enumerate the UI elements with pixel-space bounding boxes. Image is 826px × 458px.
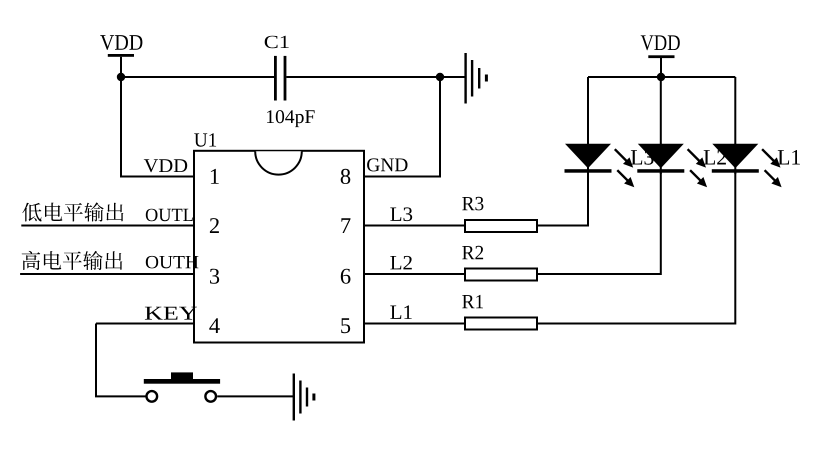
wire: pin 4 down to switch [96,324,146,397]
label L3 [631,150,654,165]
IC U1 notch [255,151,302,174]
wire: LED supply rail [588,76,735,78]
net label L2 (pin 6) [390,256,412,270]
ground (top, right of C1) [466,53,487,104]
junction dot on LED rail [657,73,665,81]
LED L1 emission arrows [762,149,782,187]
label R3 [462,197,483,211]
label R1 [462,295,483,308]
pin label KEY [145,307,197,320]
LED L3 emission arrows [615,149,635,187]
net label 低电平输出 [22,202,123,221]
pin 3 number [210,269,219,284]
wire: OUTH pin 3 [20,273,194,275]
wire: OUTL pin 2 [21,225,194,227]
resistor R1 [465,318,537,330]
resistor R3 [465,220,537,232]
wire: pin 5 to R1 [364,323,465,325]
wire: R3 to LED L3 [538,171,588,226]
pin 2 number [210,218,219,233]
LED L3 [565,144,612,174]
wire: VDD rail down to pin 1 [121,77,194,177]
LED L2 emission arrows [688,149,708,187]
wire: pin 7 to R3 [364,225,465,227]
wire: KEY pin 4 [96,323,194,325]
wire: pin 6 to R2 [364,273,465,275]
wire: R2 to LED L2 [538,171,661,274]
label U1 [194,133,216,146]
net label L3 (pin 7) [390,207,412,221]
LED L1 [712,144,759,174]
pin 4 number [209,318,220,333]
label L2 [704,150,726,165]
wire: switch to ground [217,395,294,397]
pin 7 number [341,218,350,233]
LED L1 anode wire [734,77,736,146]
label L1 [778,150,800,165]
capacitor C1 [274,56,286,101]
power symbol VDD (right) [641,35,680,78]
push button switch [144,372,220,401]
resistor R2 [465,269,537,281]
pin 5 number [341,318,350,333]
pin label OUTL [146,209,193,222]
wire: C1 to ground [286,76,465,78]
pin 1 number [211,169,219,184]
junction dot at VDD/pin1 branch [117,73,125,81]
junction dot at GND branch [436,73,444,81]
LED L2 anode wire [660,77,662,146]
wire: VDD to C1 [121,76,275,78]
pin 6 number [341,269,351,284]
net label L1 (pin 5) [390,305,411,319]
pin 8 number [341,169,351,184]
IC U1 body [194,151,364,343]
pin label OUTH [146,256,199,269]
pin label VDD [144,159,187,172]
wire: R1 to LED L1 [538,171,735,324]
LED L3 anode wire [587,77,589,146]
value 104pF [267,110,315,127]
pin label GND [367,158,407,171]
wire: GND junction down to pin 8 [364,77,440,177]
label C1 [265,36,289,49]
net label 高电平输出 [22,251,123,270]
LED L2 [637,144,684,174]
ground (below switch) [294,374,314,421]
power symbol VDD (left) [100,35,142,78]
label R2 [462,246,483,259]
